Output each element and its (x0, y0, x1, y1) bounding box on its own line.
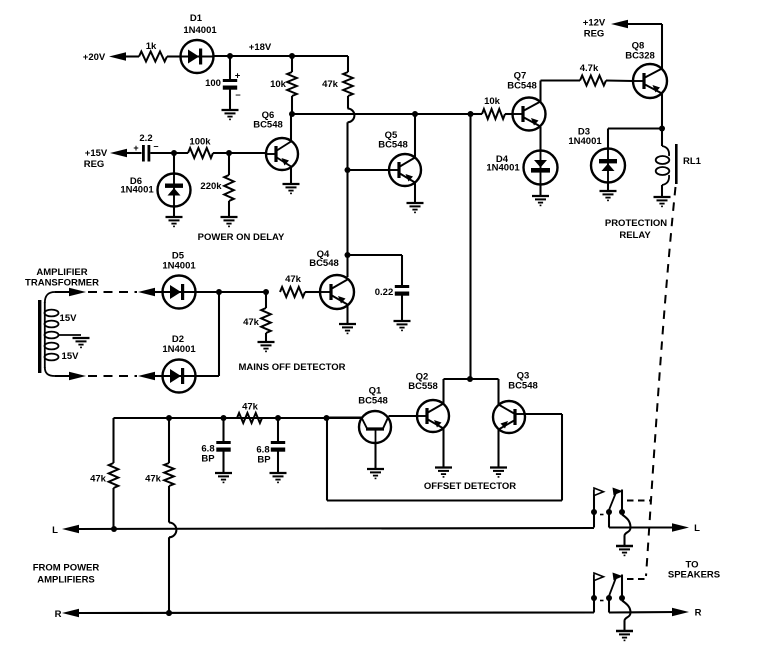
svg-text:MAINS OFF DETECTOR: MAINS OFF DETECTOR (239, 362, 346, 373)
wire sense rail (114, 417, 363, 419)
svg-text:1N4001: 1N4001 (120, 185, 154, 196)
ground (283, 183, 300, 185)
transformer bottom lead (45, 367, 55, 376)
relay contact NO pin (621, 575, 623, 599)
resistor 100k (188, 148, 213, 158)
capacitor 2.2 (142, 145, 145, 162)
node +12V REG terminal (611, 20, 628, 28)
diode D5 1N4001 (163, 276, 196, 309)
wire Q2 emitter ground (442, 429, 444, 468)
wire (150, 152, 188, 154)
transistor Q8 BC328 (633, 64, 667, 98)
resistor 4.7k (580, 76, 606, 86)
svg-text:BC558: BC558 (408, 381, 438, 392)
wire Q3 emitter ground (497, 430, 499, 468)
svg-text:47k: 47k (145, 474, 162, 485)
ground (258, 341, 275, 343)
svg-text:+12V: +12V (583, 18, 606, 29)
svg-text:BC548: BC548 (358, 396, 388, 407)
svg-text:BP: BP (201, 454, 215, 465)
svg-text:SPEAKERS: SPEAKERS (668, 570, 720, 581)
wire L output (609, 526, 677, 528)
diode D2 1N4001 (163, 360, 196, 393)
resistor 10k Q7 base (471, 113, 483, 115)
transistor Q7 BC548 (513, 98, 546, 131)
transformer winding (44, 302, 46, 368)
wire D2 to vertical (196, 375, 220, 377)
wire dashed bottom lead (88, 375, 137, 377)
wire Q8 emitter to +12V (661, 24, 663, 69)
wire collector tee (444, 378, 499, 380)
wire Q6 collector (290, 114, 292, 142)
svg-text:+18V: +18V (249, 42, 272, 53)
wire (127, 152, 142, 154)
svg-text:220k: 220k (200, 181, 222, 192)
svg-text:100k: 100k (189, 137, 211, 148)
svg-text:AMPLIFIERS: AMPLIFIERS (37, 575, 95, 586)
ground (616, 545, 633, 548)
wire Q7 emitter (539, 127, 541, 151)
capacitor 6.8 BP first (222, 418, 224, 441)
wire mid rail (292, 113, 482, 115)
svg-text:+20V: +20V (83, 52, 106, 63)
wire Q1 emitter ground (374, 443, 376, 469)
svg-text:4.7k: 4.7k (580, 63, 599, 74)
svg-text:R: R (55, 609, 62, 620)
svg-text:1N4001: 1N4001 (162, 344, 196, 355)
transistor Q6 BC548 (266, 138, 298, 170)
wire timing node vertical (346, 122, 348, 170)
transformer top lead (45, 292, 55, 303)
wire (401, 296, 403, 322)
wire to D3 (608, 127, 662, 129)
ground (616, 630, 633, 633)
transistor Q5 BC548 (389, 154, 421, 186)
wire dashed relay actuation (646, 187, 676, 576)
resistor 10k (291, 56, 293, 72)
wire D5 to node (196, 291, 267, 293)
wire (213, 152, 266, 154)
wire Q1 collector to rail (326, 416, 362, 418)
transformer core (38, 300, 41, 373)
svg-text:+: + (235, 71, 241, 82)
resistor 47k left (112, 418, 114, 463)
svg-text:47k: 47k (243, 317, 260, 328)
wire vertical D5-D2 (218, 292, 220, 376)
wire Q4 emitter (346, 305, 348, 324)
svg-text:47k: 47k (285, 274, 302, 285)
svg-text:BC548: BC548 (253, 120, 283, 131)
capacitor 6.8 BP second (277, 418, 279, 441)
diode D4 1N4001 (524, 151, 558, 185)
wire (126, 55, 139, 57)
relay contact fixed pin (593, 512, 595, 528)
wire node +18V (214, 55, 293, 57)
svg-text:10k: 10k (484, 96, 501, 107)
svg-text:+15V: +15V (85, 148, 108, 159)
ground (394, 320, 411, 322)
svg-text:BP: BP (257, 455, 271, 466)
svg-text:R: R (695, 608, 702, 619)
wire Q7 collector (539, 81, 541, 102)
relay contact common pin (608, 512, 610, 528)
wire L line (79, 528, 594, 529)
wire R line (79, 611, 594, 614)
capacitor 0.22 (395, 285, 409, 288)
wire hook to ground (622, 515, 631, 536)
svg-text:BC328: BC328 (625, 51, 655, 62)
capacitor 100 (229, 56, 231, 79)
svg-text:TRANSFORMER: TRANSFORMER (25, 278, 99, 289)
svg-text:1N4001: 1N4001 (183, 25, 217, 36)
wire R output (609, 611, 677, 614)
ground (654, 196, 671, 198)
wire Q5 collector (414, 114, 416, 158)
resistor 47k (347, 56, 349, 72)
wire hop over L line (169, 523, 176, 538)
wire dashed branch R (627, 578, 646, 580)
relay coil RL1 (661, 129, 663, 147)
resistor 47k Q4 base (280, 287, 305, 297)
wire dashed top lead (88, 291, 137, 293)
wire down to R line (168, 537, 170, 613)
transistor Q4 BC548 (320, 275, 354, 309)
ground (539, 185, 541, 197)
ground (407, 202, 424, 204)
svg-text:47k: 47k (322, 79, 339, 90)
resistor 47k second (168, 418, 170, 463)
ground (607, 183, 609, 192)
wire Q6 emitter (290, 167, 292, 185)
wire hop over mid rail (348, 109, 355, 123)
resistor 1k (139, 52, 167, 62)
diode D1 1N4001 (181, 40, 214, 73)
ground (222, 109, 239, 111)
wire 0.22 branch (348, 254, 403, 256)
svg-text:15V: 15V (60, 313, 78, 324)
wire (167, 55, 181, 57)
relay contact NO pin (621, 490, 623, 513)
svg-text:L: L (52, 525, 58, 536)
wire offset collectors vertical (469, 114, 471, 379)
ground (339, 323, 356, 325)
svg-text:OFFSET DETECTOR: OFFSET DETECTOR (424, 481, 516, 492)
transformer center tap ground (59, 334, 82, 336)
wire (229, 90, 231, 111)
relay contact fixed pin (593, 598, 595, 613)
wire top rail to 47k (292, 55, 348, 57)
svg-text:L: L (694, 523, 700, 534)
resistor 220k (228, 153, 230, 175)
svg-text:–: – (235, 90, 240, 101)
svg-text:FROM POWER: FROM POWER (33, 563, 100, 574)
wire (606, 79, 633, 82)
svg-text:BC548: BC548 (309, 258, 339, 269)
wire Q8 collector (661, 94, 663, 129)
svg-text:15V: 15V (62, 351, 80, 362)
svg-text:10k: 10k (270, 79, 287, 90)
svg-text:POWER ON DELAY: POWER ON DELAY (198, 232, 285, 243)
svg-text:PROTECTION: PROTECTION (605, 218, 667, 229)
relay contact common pin (608, 598, 610, 613)
resistor 47k between (237, 413, 262, 423)
svg-text:REG: REG (584, 29, 605, 40)
diode D6 1N4001 (173, 153, 175, 174)
svg-text:BC548: BC548 (508, 381, 538, 392)
transistor Q2 BC558 (417, 400, 449, 432)
svg-text:47k: 47k (90, 474, 107, 485)
svg-text:–: – (153, 141, 158, 151)
svg-text:1k: 1k (146, 41, 157, 52)
resistor 47k to ground (265, 292, 267, 308)
diode D3 1N4001 (607, 129, 609, 150)
svg-text:0.22: 0.22 (375, 287, 394, 298)
svg-text:1N4001: 1N4001 (162, 261, 196, 272)
svg-text:2.2: 2.2 (139, 133, 152, 144)
wire Q3 base loop (525, 413, 562, 415)
svg-text:AMPLIFIER: AMPLIFIER (36, 267, 87, 278)
transistor Q3 BC548 (493, 401, 525, 433)
svg-text:1N4001: 1N4001 (568, 136, 602, 147)
wire dashed branch L (627, 500, 650, 502)
ground (173, 207, 175, 218)
ground (221, 216, 238, 218)
svg-text:BC548: BC548 (378, 140, 408, 151)
svg-text:D1: D1 (190, 13, 203, 24)
wire Q1 to Q2 base (389, 415, 418, 417)
wire Q5 emitter (414, 183, 416, 204)
wire Q5 base (348, 169, 390, 171)
svg-text:47k: 47k (242, 402, 259, 413)
svg-text:RL1: RL1 (683, 156, 702, 167)
svg-text:1N4001: 1N4001 (486, 163, 520, 174)
svg-text:REG: REG (84, 159, 105, 170)
wire (305, 291, 320, 293)
relay armature bar (675, 144, 678, 184)
svg-text:BC548: BC548 (507, 81, 537, 92)
svg-text:100: 100 (205, 78, 221, 89)
transistor Q1 BC548 (359, 411, 391, 443)
svg-text:RELAY: RELAY (619, 230, 651, 241)
svg-text:+: + (133, 143, 138, 153)
wire hook to ground (622, 601, 631, 621)
